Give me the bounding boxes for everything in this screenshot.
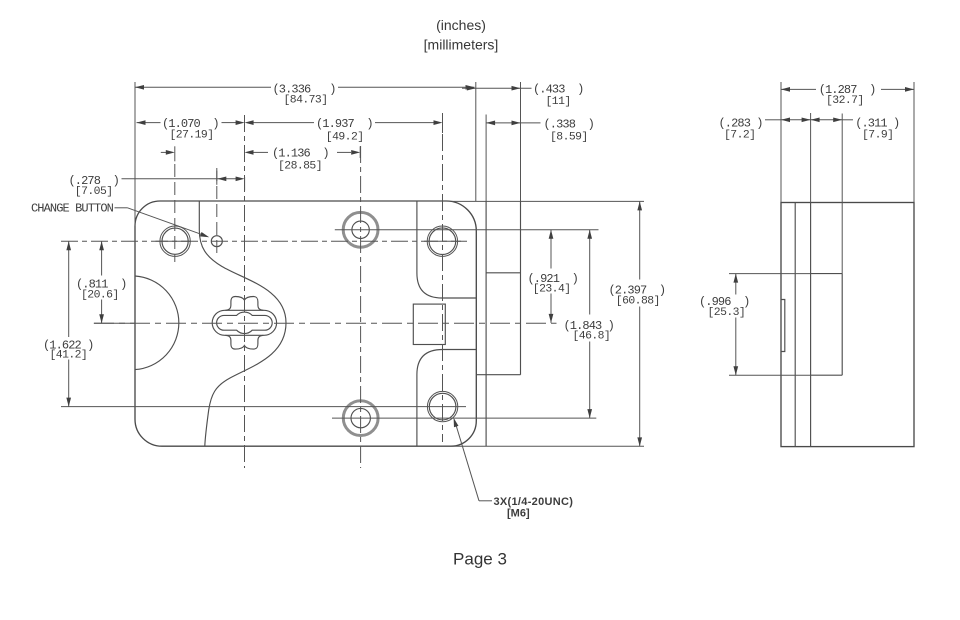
lock case outline: [135, 201, 476, 446]
dimension .338 / 8.59: [486, 115, 594, 202]
svg-text:[28.85]: [28.85]: [278, 161, 322, 173]
mounting holes bottom reference line: [61, 406, 466, 408]
svg-text:[7.05]: [7.05]: [75, 186, 113, 198]
svg-text:[20.6]: [20.6]: [81, 290, 119, 302]
stub arrow at left hole centerline: [161, 146, 175, 161]
svg-text:CHANGE BUTTON: CHANGE BUTTON: [31, 202, 114, 216]
side bolt right edge: [841, 274, 843, 376]
dimension .811 / 20.6: [76, 241, 134, 323]
change button label: [31, 202, 210, 240]
lower right lobe divider: [417, 350, 476, 447]
dimension 1.136 / 28.85: [245, 146, 361, 173]
svg-text:[41.2]: [41.2]: [50, 350, 88, 362]
svg-text:(.283 ): (.283 ): [719, 117, 763, 131]
svg-text:[7.9]: [7.9]: [862, 130, 893, 142]
inner contour wave: [199, 201, 286, 446]
side mounting face line: [810, 203, 812, 447]
dimension 1.287 / 32.7: [781, 82, 914, 203]
svg-text:[32.7]: [32.7]: [826, 95, 864, 107]
svg-text:(.338 ): (.338 ): [544, 118, 594, 132]
dimension 2.397 / 60.88: [609, 201, 666, 446]
svg-text:[60.88]: [60.88]: [616, 295, 660, 307]
case top edge extension line: [452, 200, 645, 202]
mounting hole top-left: [156, 226, 192, 256]
spindle hub clover bottom lobe: [225, 335, 263, 349]
dimension .311 / 7.9: [811, 117, 900, 142]
svg-text:[millimeters]: [millimeters]: [424, 37, 499, 53]
svg-text:(.311 ): (.311 ): [855, 117, 899, 131]
case bottom edge extension line: [452, 445, 645, 447]
spindle hub outer slot: [212, 310, 276, 335]
spindle hub inner slot: [217, 312, 273, 334]
change button vertical centerline: [216, 168, 218, 258]
svg-text:[49.2]: [49.2]: [326, 132, 364, 144]
dimension 1.070 / 27.19: [137, 117, 245, 141]
screw hole bottom reference line: [332, 417, 596, 419]
mounting hole top-right: [424, 226, 461, 256]
svg-text:Page 3: Page 3: [453, 550, 507, 569]
left boss arc: [135, 276, 179, 370]
svg-text:(.433 ): (.433 ): [533, 83, 583, 97]
dimension 1.622 / 41.2: [43, 241, 93, 406]
svg-text:(inches): (inches): [436, 17, 486, 33]
svg-text:(1.136 ): (1.136 ): [272, 147, 329, 161]
hole top-left vertical centerline: [174, 164, 176, 262]
mounting holes right vertical centerline: [442, 134, 444, 442]
side spindle boss: [781, 300, 785, 352]
mounting hole bottom-right: [427, 391, 457, 421]
cover screw hole bottom: [343, 401, 378, 436]
side bolt top edge: [729, 273, 811, 275]
dimension .921 / 23.4: [528, 230, 578, 323]
spindle hub clover top lobe: [225, 297, 263, 311]
svg-text:[46.8]: [46.8]: [573, 331, 611, 343]
dimension 1.843 / 46.8: [564, 230, 614, 418]
screw holes vertical centerline: [360, 146, 362, 468]
svg-text:[M6]: [M6]: [507, 508, 530, 520]
dimension .996 / 25.3: [699, 274, 749, 376]
svg-text:[23.4]: [23.4]: [533, 283, 571, 295]
spindle vertical centerline: [244, 115, 246, 468]
svg-text:[27.19]: [27.19]: [170, 129, 214, 141]
dimension 1.937 / 49.2: [245, 113, 443, 144]
svg-text:[8.59]: [8.59]: [550, 131, 588, 143]
svg-text:[11]: [11]: [546, 96, 571, 108]
svg-text:(1.937 ): (1.937 ): [316, 117, 373, 131]
bolt holes thread note: [451, 417, 573, 519]
dimension 3.336 / 84.73: [135, 82, 476, 226]
side bolt bottom edge: [811, 374, 843, 376]
cover screw hole top: [343, 212, 378, 247]
bolt plate inner line: [486, 272, 520, 274]
svg-text:[7.2]: [7.2]: [724, 130, 755, 142]
dimension .433 / 11: [462, 82, 583, 201]
case right strip line: [485, 201, 487, 446]
spindle horizontal centerline: [94, 322, 557, 324]
dimension .278 / 7.05: [69, 171, 245, 198]
side cover plate line: [794, 203, 796, 447]
top holes horizontal centerline: [61, 240, 467, 242]
svg-text:[25.3]: [25.3]: [708, 307, 746, 319]
svg-text:[84.73]: [84.73]: [284, 94, 328, 106]
upper right lobe divider: [417, 201, 476, 298]
screw hole top reference line: [335, 229, 599, 231]
change button: [211, 236, 222, 247]
bolt square: [413, 304, 445, 344]
svg-text:3X(1/4-20UNC): 3X(1/4-20UNC): [494, 496, 574, 508]
bolt plate bottom edge: [476, 374, 520, 376]
bolt plate right edge: [520, 201, 522, 375]
dimension .283 / 7.2: [719, 113, 811, 203]
side view body outline: [781, 203, 914, 447]
